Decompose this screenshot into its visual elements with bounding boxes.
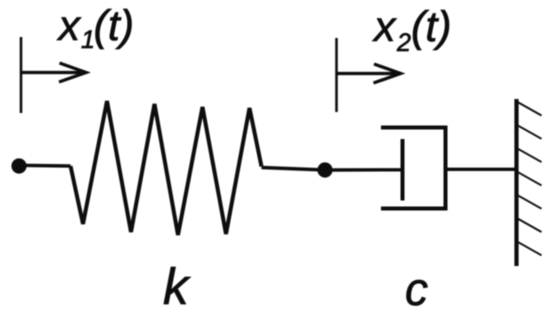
- wire: damper to wall: [446, 168, 517, 171]
- damper c cylinder: [381, 128, 446, 209]
- damper c piston rod plate: [401, 139, 405, 201]
- arrow x1: [21, 63, 86, 82]
- node: left input terminal dot: [11, 158, 26, 173]
- reference line for x1: [20, 37, 23, 113]
- reference line for x2: [335, 38, 338, 112]
- label x1(t): [57, 2, 135, 54]
- wall line: [514, 99, 518, 266]
- wire: input dot to spring: [19, 164, 71, 168]
- svg-text:x: x: [57, 2, 82, 50]
- wall hatch 4: [518, 172, 542, 186]
- node: spring-damper junction dot: [317, 162, 332, 177]
- svg-text:2: 2: [396, 29, 411, 57]
- svg-text:k: k: [163, 258, 191, 314]
- wire: spring to junction node: [262, 168, 326, 171]
- wall hatch 3: [518, 149, 542, 163]
- arrow x2: [337, 64, 401, 83]
- label x2(t): [372, 3, 452, 57]
- svg-text:c: c: [405, 263, 428, 314]
- wall hatch 6: [518, 219, 542, 233]
- spring k: [71, 101, 262, 235]
- wall hatch 7: [518, 242, 542, 256]
- svg-text:(t): (t): [94, 2, 135, 50]
- wire: junction node to damper piston: [325, 168, 402, 172]
- svg-text:(t): (t): [411, 3, 452, 51]
- wall hatch 1: [518, 102, 542, 116]
- wall hatch 2: [518, 125, 542, 139]
- svg-text:x: x: [372, 3, 397, 51]
- wall hatch 5: [518, 195, 542, 209]
